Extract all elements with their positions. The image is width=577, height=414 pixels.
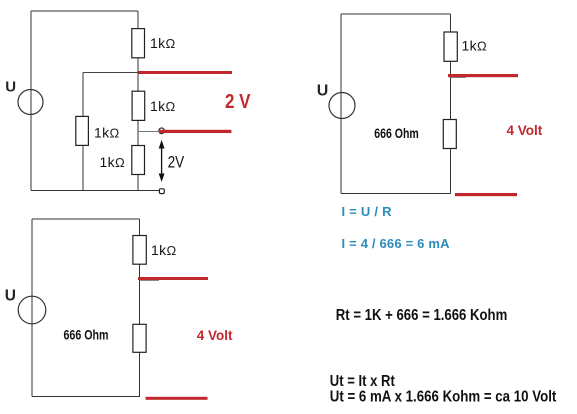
svg-text:4 Volt: 4 Volt [507, 123, 543, 138]
resistor R2 1kΩ (C1 left branch) [76, 116, 89, 145]
wire bottom C3 [32, 395, 140, 397]
svg-text:666 Ohm: 666 Ohm [64, 327, 109, 342]
voltage source U (C3) [18, 296, 46, 324]
label 4 Volt (red, C2) [507, 123, 543, 138]
svg-text:Ω: Ω [167, 243, 177, 258]
svg-text:1k: 1k [150, 35, 166, 51]
svg-text:Ut = 6 mA x 1.666 Kohm = ca 10: Ut = 6 mA x 1.666 Kohm = ca 10 Volt [330, 388, 557, 405]
arrow 2V measure [159, 140, 165, 182]
wire node stub C2 [451, 77, 467, 79]
resistor R6 666 Ohm (C2) [443, 120, 456, 149]
label 1kΩ R5 [462, 38, 488, 54]
terminal node B [159, 128, 165, 134]
wire top C3 [32, 218, 140, 220]
formula I = U / R [342, 204, 393, 219]
red probe line node B [159, 130, 232, 133]
resistor R4 1kΩ (C1 bottom) [132, 146, 145, 175]
label 1kΩ R1 [150, 35, 176, 51]
resistor R7 1kΩ (C3) [133, 236, 146, 265]
wire top C1 [31, 10, 138, 12]
svg-text:U: U [5, 79, 16, 96]
wire left branch C1 [82, 73, 84, 191]
svg-text:Ω: Ω [115, 155, 125, 170]
label 1kΩ R4 [100, 154, 126, 170]
wire right main C1 [137, 11, 139, 191]
svg-text:I = U / R: I = U / R [342, 204, 393, 219]
wire node B horizontal C1 [138, 131, 158, 133]
red probe line top C3 [138, 277, 208, 280]
wire right C3 [139, 219, 141, 396]
svg-text:2V: 2V [168, 153, 185, 171]
svg-text:U: U [5, 288, 16, 305]
formula Ut = 6 mA x 1.666 Kohm = ca 10 Volt [330, 388, 557, 405]
svg-text:Ut = It x Rt: Ut = It x Rt [330, 373, 396, 390]
resistor R1 1kΩ (C1 top) [132, 29, 145, 58]
wire left C2 [340, 14, 342, 194]
label 1kΩ R2 [94, 125, 120, 141]
formula Ut = It x Rt [330, 373, 396, 390]
wire bottom C2 [341, 193, 451, 195]
label U (C3) [5, 288, 16, 305]
svg-text:U: U [317, 83, 329, 100]
svg-text:4 Volt: 4 Volt [197, 328, 233, 343]
svg-text:Ω: Ω [166, 36, 176, 51]
terminal bottom C1 [159, 189, 164, 194]
label 1kΩ R7 [151, 242, 177, 258]
voltage source U (C2) [329, 93, 355, 119]
wire bottom C1 [31, 190, 159, 192]
svg-text:Ω: Ω [477, 39, 487, 54]
resistor R8 666 Ohm (C3) [133, 324, 146, 352]
resistor R3 1kΩ (C1 middle) [132, 91, 145, 120]
svg-text:666 Ohm: 666 Ohm [374, 125, 419, 141]
svg-text:1k: 1k [94, 125, 110, 141]
svg-text:Ω: Ω [166, 99, 176, 114]
wire node stub C3 [140, 280, 160, 282]
resistor R5 1kΩ (C2) [444, 32, 457, 61]
red probe line top C2 [448, 74, 518, 77]
wire left C3 [31, 219, 33, 396]
wire node A horizontal C1 [83, 72, 139, 74]
wire top C2 [341, 13, 451, 15]
voltage source U (C1) [18, 90, 43, 115]
red probe line bottom C2 [455, 193, 517, 196]
formula Rt = 1K + 666 = 1.666 Kohm [336, 307, 508, 324]
svg-text:1k: 1k [462, 38, 478, 54]
label 4 Volt (red, C3) [197, 328, 233, 343]
label 666 Ohm R8 [64, 327, 109, 342]
svg-text:1k: 1k [150, 98, 166, 114]
label 1kΩ R3 [150, 98, 176, 114]
wire left C1 [30, 11, 32, 191]
label U (C1) [5, 79, 16, 96]
label U (C2) [317, 83, 329, 100]
label 666 Ohm R6 [374, 125, 419, 141]
svg-text:I = 4 / 666 = 6 mA: I = 4 / 666 = 6 mA [342, 236, 451, 251]
label 2 V (red, C1) [225, 90, 251, 113]
wire right C2 [450, 14, 452, 194]
svg-text:1k: 1k [151, 242, 167, 258]
label 2V arrow [168, 153, 185, 171]
svg-text:Rt = 1K + 666 = 1.666 Kohm: Rt = 1K + 666 = 1.666 Kohm [336, 307, 508, 324]
svg-text:Ω: Ω [110, 126, 120, 141]
svg-text:1k: 1k [100, 154, 116, 170]
red probe line bottom C3 [146, 397, 208, 400]
formula I = 4 / 666 = 6 mA [342, 236, 451, 251]
svg-text:2 V: 2 V [225, 90, 251, 113]
red probe line node A [139, 71, 233, 74]
